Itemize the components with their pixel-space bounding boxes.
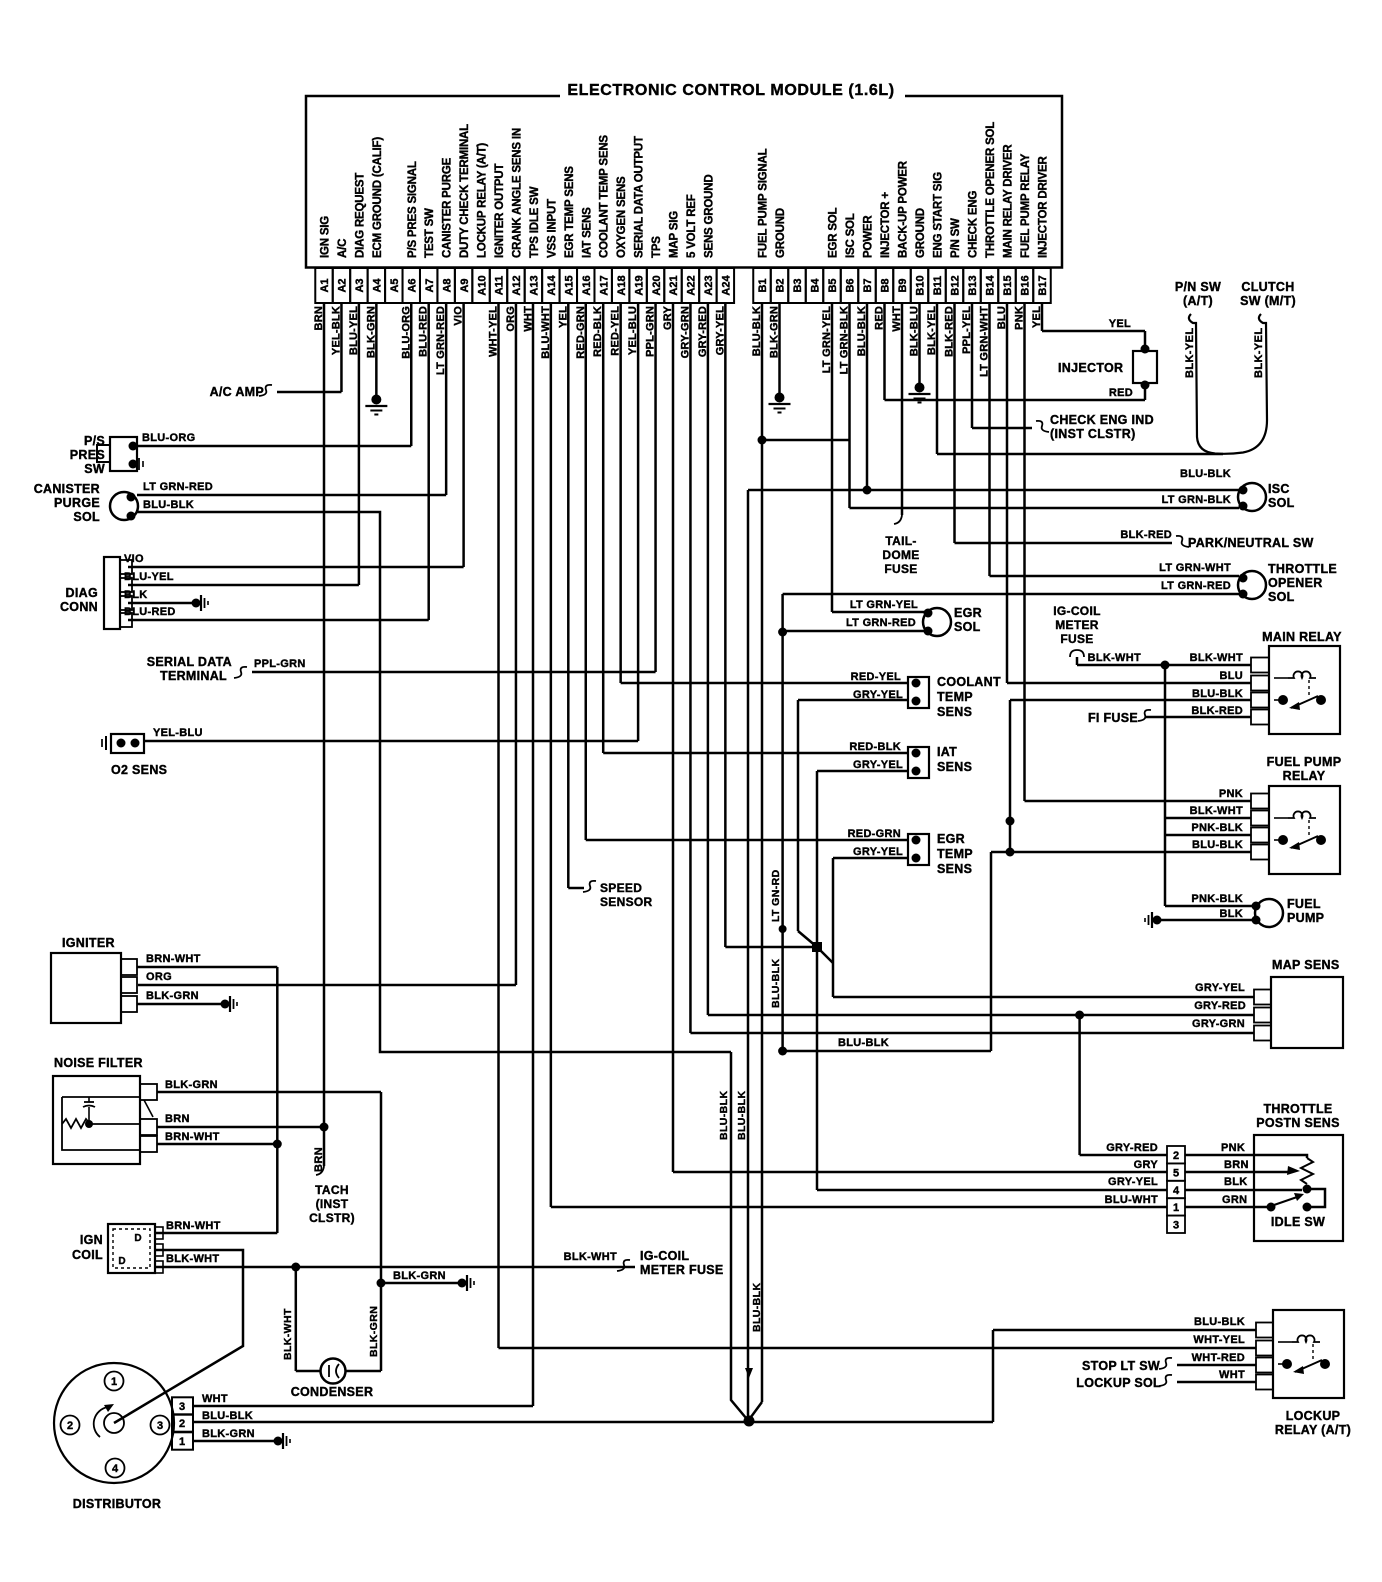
- svg-text:THROTTLE: THROTTLE: [1268, 562, 1337, 576]
- svg-text:SENS GROUND: SENS GROUND: [703, 175, 715, 258]
- svg-text:BLU-BLK: BLU-BLK: [1194, 1316, 1245, 1328]
- svg-text:A3: A3: [354, 278, 366, 292]
- svg-text:EGR: EGR: [954, 606, 982, 620]
- svg-text:COIL: COIL: [72, 1248, 103, 1262]
- svg-text:LOCKUP: LOCKUP: [1286, 1409, 1341, 1423]
- svg-text:BLU-BLK: BLU-BLK: [718, 1091, 730, 1140]
- svg-text:WHT-YEL: WHT-YEL: [1193, 1334, 1245, 1346]
- svg-text:FUEL PUMP: FUEL PUMP: [1267, 755, 1342, 769]
- svg-text:INJECTOR: INJECTOR: [1058, 361, 1123, 375]
- svg-text:A4: A4: [372, 278, 384, 293]
- svg-text:A23: A23: [703, 275, 715, 295]
- svg-text:IGN: IGN: [80, 1233, 103, 1247]
- svg-text:SERIAL DATA: SERIAL DATA: [147, 655, 232, 669]
- svg-text:BLK: BLK: [1224, 1176, 1248, 1188]
- svg-text:OPENER: OPENER: [1268, 576, 1323, 590]
- svg-text:A8: A8: [441, 278, 453, 292]
- svg-text:SENS: SENS: [937, 862, 972, 876]
- svg-text:DUTY CHECK TERMINAL: DUTY CHECK TERMINAL: [459, 124, 471, 258]
- svg-text:B9: B9: [897, 278, 909, 292]
- svg-text:THROTTLE OPENER SOL: THROTTLE OPENER SOL: [985, 122, 997, 258]
- svg-text:SOL: SOL: [954, 620, 981, 634]
- svg-text:BLU-YEL: BLU-YEL: [124, 571, 174, 583]
- svg-text:WHT-RED: WHT-RED: [1192, 1352, 1245, 1364]
- svg-text:TEMP: TEMP: [937, 847, 973, 861]
- svg-text:VSS INPUT: VSS INPUT: [546, 199, 558, 258]
- svg-text:B16: B16: [1020, 275, 1032, 295]
- svg-text:CLUTCH: CLUTCH: [1241, 280, 1294, 294]
- svg-text:FI FUSE: FI FUSE: [1088, 711, 1138, 725]
- svg-text:SERIAL DATA OUTPUT: SERIAL DATA OUTPUT: [634, 136, 646, 258]
- svg-text:YEL-BLU: YEL-BLU: [153, 727, 203, 739]
- svg-text:RED-BLK: RED-BLK: [849, 741, 901, 753]
- svg-text:A/C AMP: A/C AMP: [210, 385, 264, 399]
- svg-text:4: 4: [112, 1463, 119, 1475]
- svg-text:GRY-YEL: GRY-YEL: [1195, 982, 1245, 994]
- svg-text:FUSE: FUSE: [1060, 632, 1093, 646]
- svg-text:A/C: A/C: [337, 239, 349, 258]
- svg-text:IAT SENS: IAT SENS: [581, 207, 593, 258]
- svg-text:MAP SENS: MAP SENS: [1272, 958, 1339, 972]
- svg-text:RELAY: RELAY: [1283, 769, 1326, 783]
- svg-text:BLU-BLK: BLU-BLK: [202, 1410, 253, 1422]
- svg-text:BLK-WHT: BLK-WHT: [1190, 652, 1243, 664]
- svg-text:CLSTR): CLSTR): [309, 1211, 355, 1225]
- svg-text:A10: A10: [476, 275, 488, 295]
- svg-text:TEMP: TEMP: [937, 690, 973, 704]
- svg-text:B11: B11: [932, 276, 944, 296]
- svg-text:A7: A7: [424, 278, 436, 292]
- svg-text:FUEL PUMP SIGNAL: FUEL PUMP SIGNAL: [758, 148, 770, 258]
- svg-text:BLK-YEL: BLK-YEL: [1184, 328, 1196, 378]
- svg-text:B12: B12: [950, 275, 962, 295]
- svg-text:IG-COIL: IG-COIL: [640, 1249, 689, 1263]
- svg-text:NOISE FILTER: NOISE FILTER: [54, 1056, 143, 1070]
- svg-text:VIO: VIO: [124, 553, 144, 565]
- svg-text:MAIN RELAY: MAIN RELAY: [1262, 630, 1342, 644]
- svg-text:B14: B14: [985, 275, 997, 296]
- svg-text:GRY-YEL: GRY-YEL: [853, 846, 903, 858]
- svg-text:A2: A2: [337, 278, 349, 292]
- svg-text:BLK-WHT: BLK-WHT: [564, 1251, 617, 1263]
- svg-text:A16: A16: [581, 275, 593, 295]
- svg-text:BLK-WHT: BLK-WHT: [1190, 805, 1243, 817]
- svg-text:ELECTRONIC CONTROL MODULE (1.6: ELECTRONIC CONTROL MODULE (1.6L): [567, 82, 894, 99]
- svg-text:LT GRN-RED: LT GRN-RED: [846, 617, 916, 629]
- svg-text:3: 3: [157, 1420, 163, 1432]
- svg-text:DIAG REQUEST: DIAG REQUEST: [354, 173, 366, 258]
- svg-text:P/N SW: P/N SW: [1175, 280, 1221, 294]
- svg-text:D: D: [118, 1256, 125, 1267]
- svg-text:POWER: POWER: [863, 215, 875, 258]
- svg-text:GRY: GRY: [1134, 1159, 1159, 1171]
- svg-text:B7: B7: [862, 278, 874, 292]
- svg-text:BRN: BRN: [313, 1147, 325, 1172]
- svg-text:GRY-RED: GRY-RED: [1106, 1142, 1158, 1154]
- svg-text:TPS: TPS: [651, 236, 663, 258]
- svg-text:A21: A21: [668, 275, 680, 295]
- svg-text:GRY-YEL: GRY-YEL: [853, 759, 903, 771]
- svg-text:O2 SENS: O2 SENS: [111, 763, 167, 777]
- svg-text:STOP LT SW: STOP LT SW: [1082, 1359, 1160, 1373]
- svg-text:RELAY (A/T): RELAY (A/T): [1275, 1423, 1351, 1437]
- svg-text:3: 3: [1173, 1220, 1179, 1232]
- svg-text:LT GRN-WHT: LT GRN-WHT: [1159, 562, 1231, 574]
- svg-text:GROUND: GROUND: [915, 208, 927, 258]
- svg-text:PARK/NEUTRAL SW: PARK/NEUTRAL SW: [1188, 536, 1314, 550]
- svg-text:BLU-RED: BLU-RED: [124, 606, 176, 618]
- svg-text:B1: B1: [757, 278, 769, 292]
- svg-text:A9: A9: [459, 278, 471, 292]
- svg-text:BLU-WHT: BLU-WHT: [1105, 1194, 1158, 1206]
- svg-text:B6: B6: [845, 278, 857, 292]
- svg-text:LT GRN-YEL: LT GRN-YEL: [850, 599, 918, 611]
- svg-text:DOME: DOME: [882, 548, 919, 562]
- svg-text:2: 2: [67, 1420, 73, 1432]
- svg-text:BRN-WHT: BRN-WHT: [146, 953, 201, 965]
- svg-text:SW (M/T): SW (M/T): [1240, 294, 1296, 308]
- svg-text:BLK-RED: BLK-RED: [1120, 529, 1172, 541]
- svg-text:TACH: TACH: [315, 1183, 349, 1197]
- svg-text:CANISTER: CANISTER: [34, 482, 100, 496]
- svg-text:FUEL PUMP RELAY: FUEL PUMP RELAY: [1020, 153, 1032, 258]
- svg-text:LT GRN-RED: LT GRN-RED: [143, 481, 213, 493]
- svg-text:BLU-BLK: BLU-BLK: [1180, 468, 1231, 480]
- svg-text:5 VOLT REF: 5 VOLT REF: [686, 194, 698, 258]
- svg-text:EGR SOL: EGR SOL: [828, 207, 840, 258]
- svg-text:SOL: SOL: [73, 510, 100, 524]
- svg-text:LT GN-RD: LT GN-RD: [770, 869, 782, 922]
- svg-text:PNK-BLK: PNK-BLK: [1191, 893, 1243, 905]
- svg-text:YEL: YEL: [1109, 318, 1131, 330]
- svg-text:COOLANT: COOLANT: [937, 675, 1001, 689]
- svg-text:P/S PRES SIGNAL: P/S PRES SIGNAL: [407, 161, 419, 258]
- svg-text:ISC: ISC: [1268, 482, 1290, 496]
- svg-text:BLK-WHT: BLK-WHT: [166, 1253, 219, 1265]
- svg-text:CRANK ANGLE SENS IN: CRANK ANGLE SENS IN: [511, 128, 523, 258]
- svg-text:FUEL: FUEL: [1287, 897, 1321, 911]
- svg-text:WHT: WHT: [1219, 1369, 1245, 1381]
- svg-text:FUSE: FUSE: [884, 562, 917, 576]
- svg-text:GROUND: GROUND: [775, 208, 787, 258]
- svg-text:IGN SIG: IGN SIG: [320, 216, 332, 258]
- svg-text:POSTN SENS: POSTN SENS: [1256, 1116, 1340, 1130]
- svg-text:1: 1: [179, 1436, 185, 1448]
- svg-text:BLU-BLK: BLU-BLK: [736, 1091, 748, 1140]
- svg-text:D: D: [134, 1233, 141, 1244]
- svg-text:DIAG: DIAG: [66, 586, 98, 600]
- svg-text:GRY-YEL: GRY-YEL: [853, 689, 903, 701]
- svg-text:BRN-WHT: BRN-WHT: [165, 1131, 220, 1143]
- svg-text:B5: B5: [827, 278, 839, 292]
- svg-text:METER FUSE: METER FUSE: [640, 1263, 724, 1277]
- svg-text:RED-GRN: RED-GRN: [848, 828, 901, 840]
- svg-text:BLU-BLK: BLU-BLK: [770, 959, 782, 1008]
- svg-text:EGR TEMP SENS: EGR TEMP SENS: [564, 166, 576, 258]
- svg-text:GRN: GRN: [1222, 1194, 1247, 1206]
- svg-text:A6: A6: [406, 278, 418, 292]
- svg-text:ISC SOL: ISC SOL: [845, 213, 857, 258]
- svg-text:IDLE SW: IDLE SW: [1271, 1215, 1325, 1229]
- svg-text:DISTRIBUTOR: DISTRIBUTOR: [73, 1497, 162, 1511]
- svg-text:PNK: PNK: [1221, 1142, 1245, 1154]
- svg-text:TAIL-: TAIL-: [885, 534, 916, 548]
- svg-text:SENS: SENS: [937, 760, 972, 774]
- svg-text:ORG: ORG: [146, 971, 172, 983]
- svg-text:BLK: BLK: [1219, 908, 1243, 920]
- svg-text:A20: A20: [651, 275, 663, 295]
- svg-text:SW: SW: [84, 462, 105, 476]
- svg-text:BRN: BRN: [1224, 1159, 1249, 1171]
- svg-text:GRY-YEL: GRY-YEL: [1108, 1176, 1158, 1188]
- svg-text:SENS: SENS: [937, 705, 972, 719]
- svg-text:BRN: BRN: [165, 1113, 190, 1125]
- svg-text:PRES: PRES: [70, 448, 105, 462]
- svg-text:BLU-BLK: BLU-BLK: [1192, 839, 1243, 851]
- svg-text:MAP SIG: MAP SIG: [669, 211, 681, 258]
- svg-text:A15: A15: [564, 275, 576, 295]
- svg-text:LOCKUP SOL: LOCKUP SOL: [1076, 1376, 1161, 1390]
- svg-text:LOCKUP RELAY (A/T): LOCKUP RELAY (A/T): [477, 143, 489, 258]
- svg-text:EGR: EGR: [937, 832, 965, 846]
- svg-text:A14: A14: [546, 275, 558, 296]
- svg-text:COOLANT TEMP SENS: COOLANT TEMP SENS: [599, 135, 611, 258]
- svg-text:WHT: WHT: [202, 1393, 228, 1405]
- svg-text:GRY-GRN: GRY-GRN: [1192, 1018, 1245, 1030]
- svg-text:BLU-BLK: BLU-BLK: [838, 1037, 889, 1049]
- svg-text:A5: A5: [389, 278, 401, 292]
- svg-text:A18: A18: [616, 275, 628, 295]
- svg-text:IG-COIL: IG-COIL: [1053, 604, 1100, 618]
- svg-text:B10: B10: [915, 275, 927, 295]
- svg-text:A24: A24: [721, 275, 733, 296]
- svg-text:METER: METER: [1055, 618, 1099, 632]
- svg-text:BLU-BLK: BLU-BLK: [751, 1283, 763, 1332]
- svg-text:BLK-RED: BLK-RED: [1191, 705, 1243, 717]
- svg-text:B2: B2: [775, 278, 787, 292]
- svg-text:CONN: CONN: [60, 600, 98, 614]
- svg-text:A12: A12: [511, 275, 523, 295]
- svg-text:SPEED: SPEED: [600, 881, 642, 895]
- svg-text:RED-YEL: RED-YEL: [851, 671, 901, 683]
- svg-text:BLK-GRN: BLK-GRN: [393, 1270, 446, 1282]
- svg-text:BLK-WHT: BLK-WHT: [282, 1308, 294, 1360]
- svg-text:LT GRN-BLK: LT GRN-BLK: [1162, 494, 1231, 506]
- svg-text:P/N SW: P/N SW: [950, 218, 962, 258]
- svg-text:CHECK ENG IND: CHECK ENG IND: [1050, 413, 1154, 427]
- svg-text:BLK-YEL: BLK-YEL: [1253, 328, 1265, 378]
- svg-text:SOL: SOL: [1268, 496, 1295, 510]
- svg-text:PNK-BLK: PNK-BLK: [1191, 822, 1243, 834]
- svg-text:B13: B13: [967, 275, 979, 295]
- svg-text:TPS IDLE SW: TPS IDLE SW: [529, 186, 541, 258]
- svg-text:BACK-UP POWER: BACK-UP POWER: [898, 160, 910, 258]
- svg-text:IGNITER OUTPUT: IGNITER OUTPUT: [494, 164, 506, 258]
- svg-text:INJECTOR +: INJECTOR +: [880, 192, 892, 258]
- svg-text:A11: A11: [494, 276, 506, 296]
- svg-text:(INST: (INST: [316, 1197, 349, 1211]
- svg-text:PPL-GRN: PPL-GRN: [254, 658, 306, 670]
- svg-text:2: 2: [179, 1418, 185, 1430]
- svg-text:BLU: BLU: [1219, 670, 1243, 682]
- svg-text:B17: B17: [1037, 275, 1049, 295]
- svg-text:TERMINAL: TERMINAL: [160, 669, 227, 683]
- svg-text:INJECTOR DRIVER: INJECTOR DRIVER: [1038, 156, 1050, 258]
- svg-text:A1: A1: [319, 278, 331, 292]
- svg-text:1: 1: [111, 1376, 117, 1388]
- svg-text:ECM GROUND (CALIF): ECM GROUND (CALIF): [372, 137, 384, 258]
- svg-text:4: 4: [1173, 1185, 1180, 1197]
- svg-text:BLK-GRN: BLK-GRN: [368, 1306, 380, 1357]
- svg-text:BLU-ORG: BLU-ORG: [142, 432, 195, 444]
- svg-text:BRN-WHT: BRN-WHT: [166, 1220, 221, 1232]
- svg-text:B15: B15: [1002, 275, 1014, 295]
- svg-text:A13: A13: [529, 275, 541, 295]
- svg-text:A19: A19: [633, 275, 645, 295]
- svg-text:A17: A17: [598, 275, 610, 295]
- svg-text:(INST CLSTR): (INST CLSTR): [1050, 427, 1136, 441]
- svg-text:CONDENSER: CONDENSER: [291, 1385, 374, 1399]
- svg-text:B4: B4: [810, 278, 822, 293]
- svg-text:5: 5: [1173, 1167, 1179, 1179]
- svg-text:MAIN RELAY DRIVER: MAIN RELAY DRIVER: [1003, 144, 1015, 258]
- svg-text:2: 2: [1173, 1150, 1179, 1162]
- svg-text:IGNITER: IGNITER: [62, 936, 115, 950]
- svg-text:A22: A22: [686, 275, 698, 295]
- svg-text:B3: B3: [792, 278, 804, 292]
- svg-text:PUMP: PUMP: [1287, 911, 1324, 925]
- svg-text:GRY-RED: GRY-RED: [1194, 1000, 1246, 1012]
- svg-text:SENSOR: SENSOR: [600, 895, 653, 909]
- svg-text:B8: B8: [880, 278, 892, 292]
- svg-text:CHECK ENG: CHECK ENG: [968, 191, 980, 258]
- svg-text:(A/T): (A/T): [1183, 294, 1213, 308]
- svg-text:BLK-WHT: BLK-WHT: [1088, 652, 1141, 664]
- svg-text:BLU-BLK: BLU-BLK: [143, 499, 194, 511]
- svg-text:ENG START SIG: ENG START SIG: [933, 172, 945, 258]
- svg-text:3: 3: [179, 1401, 185, 1413]
- svg-text:1: 1: [1173, 1202, 1179, 1214]
- svg-text:IAT: IAT: [937, 745, 957, 759]
- svg-text:PNK: PNK: [1219, 788, 1243, 800]
- svg-text:LT GRN-RED: LT GRN-RED: [1161, 580, 1231, 592]
- svg-text:SOL: SOL: [1268, 590, 1295, 604]
- svg-text:PURGE: PURGE: [54, 496, 100, 510]
- svg-text:BLK: BLK: [124, 589, 148, 601]
- svg-text:RED: RED: [1109, 387, 1133, 399]
- svg-text:BLU-BLK: BLU-BLK: [1192, 688, 1243, 700]
- svg-text:BLK-GRN: BLK-GRN: [165, 1079, 218, 1091]
- svg-text:CANISTER PURGE: CANISTER PURGE: [442, 157, 454, 258]
- svg-text:TEST SW: TEST SW: [424, 208, 436, 258]
- svg-text:THROTTLE: THROTTLE: [1263, 1102, 1332, 1116]
- svg-text:OXYGEN SENS: OXYGEN SENS: [616, 176, 628, 258]
- svg-text:BLK-GRN: BLK-GRN: [202, 1428, 255, 1440]
- svg-text:BLK-GRN: BLK-GRN: [146, 990, 199, 1002]
